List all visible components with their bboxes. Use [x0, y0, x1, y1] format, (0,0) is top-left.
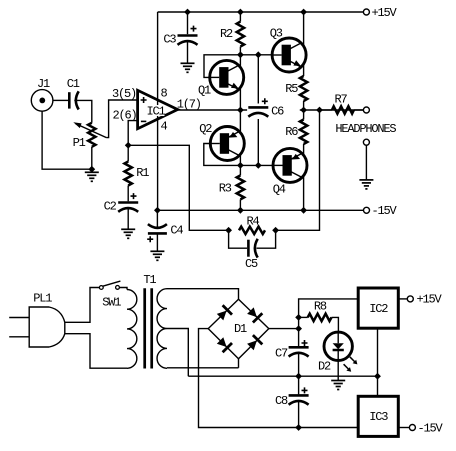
resistor R1 — [125, 162, 132, 186]
transformer T1 secondary winding — [157, 289, 167, 369]
svg-text:+15V: +15V — [372, 6, 398, 20]
capacitor C3 — [178, 34, 198, 37]
wire cord lower to primary bottom — [65, 334, 127, 369]
svg-text:2(6): 2(6) — [112, 108, 136, 122]
capacitor C1 — [68, 92, 71, 108]
ground under C3 — [181, 62, 195, 64]
wire C3 leads — [187, 12, 189, 34]
wire output node to R7 — [300, 109, 364, 111]
wire C4 top lead — [156, 210, 158, 227]
wire P1 wiper to op-amp pin 3 — [106, 100, 137, 138]
diode D1 top-left — [217, 311, 227, 321]
ground under headphone jack — [359, 179, 373, 181]
junction 0V C7 C8 — [295, 373, 302, 380]
svg-text:3(5): 3(5) — [112, 87, 136, 101]
op-amp plus input mark — [141, 97, 147, 103]
transistor Q1 — [210, 60, 244, 94]
wire op-amp output to node — [178, 109, 248, 111]
terminal headphone ground — [363, 139, 369, 145]
resistor R7 — [332, 106, 354, 113]
ground under C2 — [121, 228, 135, 230]
wire T1 center tap to 0V line — [167, 329, 188, 377]
svg-text:4: 4 — [160, 119, 167, 133]
wire P1 bottom to ground junction — [91, 147, 93, 169]
wire IC3 output to -15V terminal — [398, 427, 409, 429]
capacitor C5 — [247, 240, 250, 257]
ground under P1/J1 — [85, 171, 99, 173]
junction C6 top — [255, 51, 262, 58]
transformer T1 primary winding — [127, 290, 137, 369]
svg-text:Q2: Q2 — [199, 122, 212, 136]
svg-text:C8: C8 — [275, 394, 288, 408]
svg-text:D2: D2 — [318, 359, 331, 373]
junction C6 bottom — [255, 162, 262, 169]
svg-text:C5: C5 — [245, 257, 258, 271]
svg-text:R3: R3 — [219, 181, 232, 195]
svg-text:-15V: -15V — [418, 421, 444, 435]
junction R5 R6 — [300, 107, 307, 114]
wire PL1 prong upper — [9, 317, 29, 319]
capacitor C8 — [289, 394, 309, 397]
white mask under IC1 label — [147, 105, 165, 116]
resistor R2 — [237, 22, 244, 47]
mains plug PL1 — [29, 307, 65, 347]
svg-text:IC2: IC2 — [369, 302, 388, 316]
svg-text:-15V: -15V — [372, 204, 398, 218]
junction 0V regulators — [374, 373, 381, 380]
bridge rectifier D1 diamond — [208, 299, 269, 359]
svg-text:8: 8 — [160, 86, 167, 100]
svg-text:C2: C2 — [104, 199, 117, 213]
resistor R5 — [300, 76, 307, 101]
wire PL1 prong lower — [9, 336, 29, 338]
terminal +15V top — [363, 9, 369, 15]
wire R6 top lead — [303, 110, 305, 120]
junction node A — [237, 51, 244, 58]
wire headphone jack ground stem — [365, 145, 367, 180]
wire R1 top lead — [127, 145, 129, 161]
ground under D2 — [331, 380, 345, 382]
resistor R8 — [308, 314, 332, 321]
svg-text:P1: P1 — [73, 136, 86, 150]
diode D1 bottom-right — [247, 340, 257, 350]
junction R4 right — [272, 227, 279, 234]
regulator IC2 — [358, 288, 398, 328]
junction C4 rail — [154, 207, 161, 214]
wire R8 leads — [299, 316, 308, 318]
transistor Q3 — [272, 38, 306, 72]
junction R8 left — [295, 314, 302, 321]
LED D2 emission arrows — [350, 357, 356, 363]
wire C7 bottom lead — [298, 352, 300, 377]
svg-text:R7: R7 — [334, 92, 347, 106]
svg-text:IC1: IC1 — [146, 105, 165, 119]
wire R3 leads — [239, 165, 241, 175]
wire IC2 output to +15V terminal — [398, 298, 407, 300]
wire plus node up to IC2 input — [299, 299, 359, 346]
capacitor C6 — [247, 104, 269, 120]
wire cord upper to SW1 — [65, 288, 100, 323]
svg-text:HEADPHONES: HEADPHONES — [335, 122, 396, 136]
svg-text:C6: C6 — [271, 104, 284, 118]
wire C5 right bracket — [257, 230, 276, 248]
wire op-amp pin 2 — [128, 121, 137, 146]
wire C6 bottom lead — [257, 112, 259, 165]
svg-text:SW1: SW1 — [102, 295, 121, 309]
LED D2 — [324, 332, 352, 360]
resistor R6 — [300, 120, 307, 145]
svg-text:+15V: +15V — [417, 293, 443, 307]
junction bias node — [237, 162, 244, 169]
svg-text:R4: R4 — [246, 214, 259, 228]
wire D2 cathode to ground — [337, 360, 339, 380]
svg-text:D1: D1 — [234, 322, 247, 336]
wire C5 left bracket — [229, 230, 247, 248]
terminal headphone signal — [363, 107, 369, 113]
wire Q2 base loop — [204, 144, 241, 166]
svg-text:IC3: IC3 — [369, 410, 388, 424]
svg-text:1(7): 1(7) — [177, 97, 201, 111]
connector J1 — [31, 90, 53, 112]
wire supply vertical pin8-pin4 through IC1 — [157, 12, 159, 210]
wire C2 bottom lead — [127, 208, 129, 230]
svg-text:R8: R8 — [314, 300, 327, 314]
svg-text:T1: T1 — [143, 273, 156, 287]
op-amp minus input mark — [141, 120, 146, 122]
wire J1 to C1 — [53, 99, 68, 101]
wire R6 to Q4 emitter and Q4 collector to -15 rail — [303, 144, 305, 210]
transformer T1 core — [143, 288, 146, 368]
terminal -15V supply — [409, 425, 415, 431]
wire node A to Q1 base — [204, 55, 240, 78]
capacitor C2 — [118, 201, 138, 204]
wire bridge minus corner to -15V rail — [199, 329, 359, 428]
wire C4 bottom lead — [156, 234, 158, 251]
junction feedback tap — [316, 107, 323, 114]
ground under C4 — [150, 250, 164, 252]
junction C7 top — [295, 325, 302, 332]
wire C8 leads — [298, 376, 300, 394]
resistor R3 — [237, 175, 244, 199]
wire node A to Q3 base — [240, 54, 272, 56]
svg-text:C1: C1 — [67, 77, 80, 91]
junction pin2 R1 — [125, 142, 132, 149]
svg-text:Q4: Q4 — [273, 182, 286, 196]
junction R2 top rail — [237, 9, 244, 16]
svg-text:C4: C4 — [170, 223, 183, 237]
svg-text:Q3: Q3 — [270, 26, 283, 40]
transistor Q4 — [273, 148, 307, 182]
terminal +15V supply — [407, 296, 413, 302]
junction C3 top rail — [184, 9, 191, 16]
wire bridge plus corner to C7 node — [269, 328, 299, 330]
junction output node — [237, 107, 244, 114]
junction Q4 rail — [300, 207, 307, 214]
wire IC3 input from 0V node — [377, 376, 379, 396]
junction C8 bottom — [295, 424, 302, 431]
wire R7 leads — [320, 109, 332, 111]
potentiometer P1 — [88, 123, 95, 147]
capacitor C4 (reversed) — [148, 224, 167, 228]
wire bias node to Q4 base — [240, 164, 273, 166]
svg-text:Q1: Q1 — [198, 84, 211, 98]
junction R3 rail — [237, 207, 244, 214]
regulator IC3 — [358, 396, 398, 436]
wire T1 secondary top to bridge top corner — [167, 289, 239, 300]
junction R4 left — [225, 227, 232, 234]
diode D1 top-right — [247, 307, 257, 317]
svg-text:J1: J1 — [37, 77, 50, 91]
wire IC2 ground to 0V — [377, 328, 379, 376]
wire SW1 to T1 primary top — [119, 288, 127, 290]
junction Q3 collector rail — [300, 9, 307, 16]
switch SW1 — [103, 281, 121, 286]
wire 0V line — [188, 375, 377, 377]
wire feedback R4 right to output node — [276, 110, 320, 230]
wire R1 to C2 — [127, 186, 129, 202]
wire C6 top lead — [257, 55, 259, 106]
svg-text:C3: C3 — [163, 33, 176, 47]
svg-text:C7: C7 — [275, 346, 288, 360]
wire Q3 collector to +15 rail and emitter to R5 — [303, 12, 305, 76]
capacitor C7 — [289, 346, 309, 349]
wire Q1 collector-emitter column — [239, 55, 241, 166]
svg-text:PL1: PL1 — [33, 292, 52, 306]
svg-text:R5: R5 — [285, 82, 298, 96]
transistor Q2 — [210, 127, 244, 161]
wire T1 secondary bottom to bridge bottom corner — [167, 367, 239, 369]
op-amp IC1 — [138, 90, 178, 128]
svg-text:R1: R1 — [136, 166, 149, 180]
resistor R4 — [239, 227, 265, 234]
wire C1 to P1 top — [74, 100, 92, 122]
wire -15V rail top section — [157, 209, 363, 211]
wire +15V top rail — [158, 11, 364, 13]
svg-text:R2: R2 — [220, 27, 233, 41]
diode D1 bottom-left — [217, 337, 227, 347]
wire R5 bottom lead — [303, 101, 305, 110]
wire feedback pin2 to R4 node — [128, 145, 228, 230]
svg-text:R6: R6 — [285, 125, 298, 139]
wire R2 leads — [239, 12, 241, 22]
terminal -15V top section — [364, 207, 370, 213]
wire J1 sleeve to ground junction — [42, 111, 92, 169]
junction P1 ground — [88, 166, 95, 173]
